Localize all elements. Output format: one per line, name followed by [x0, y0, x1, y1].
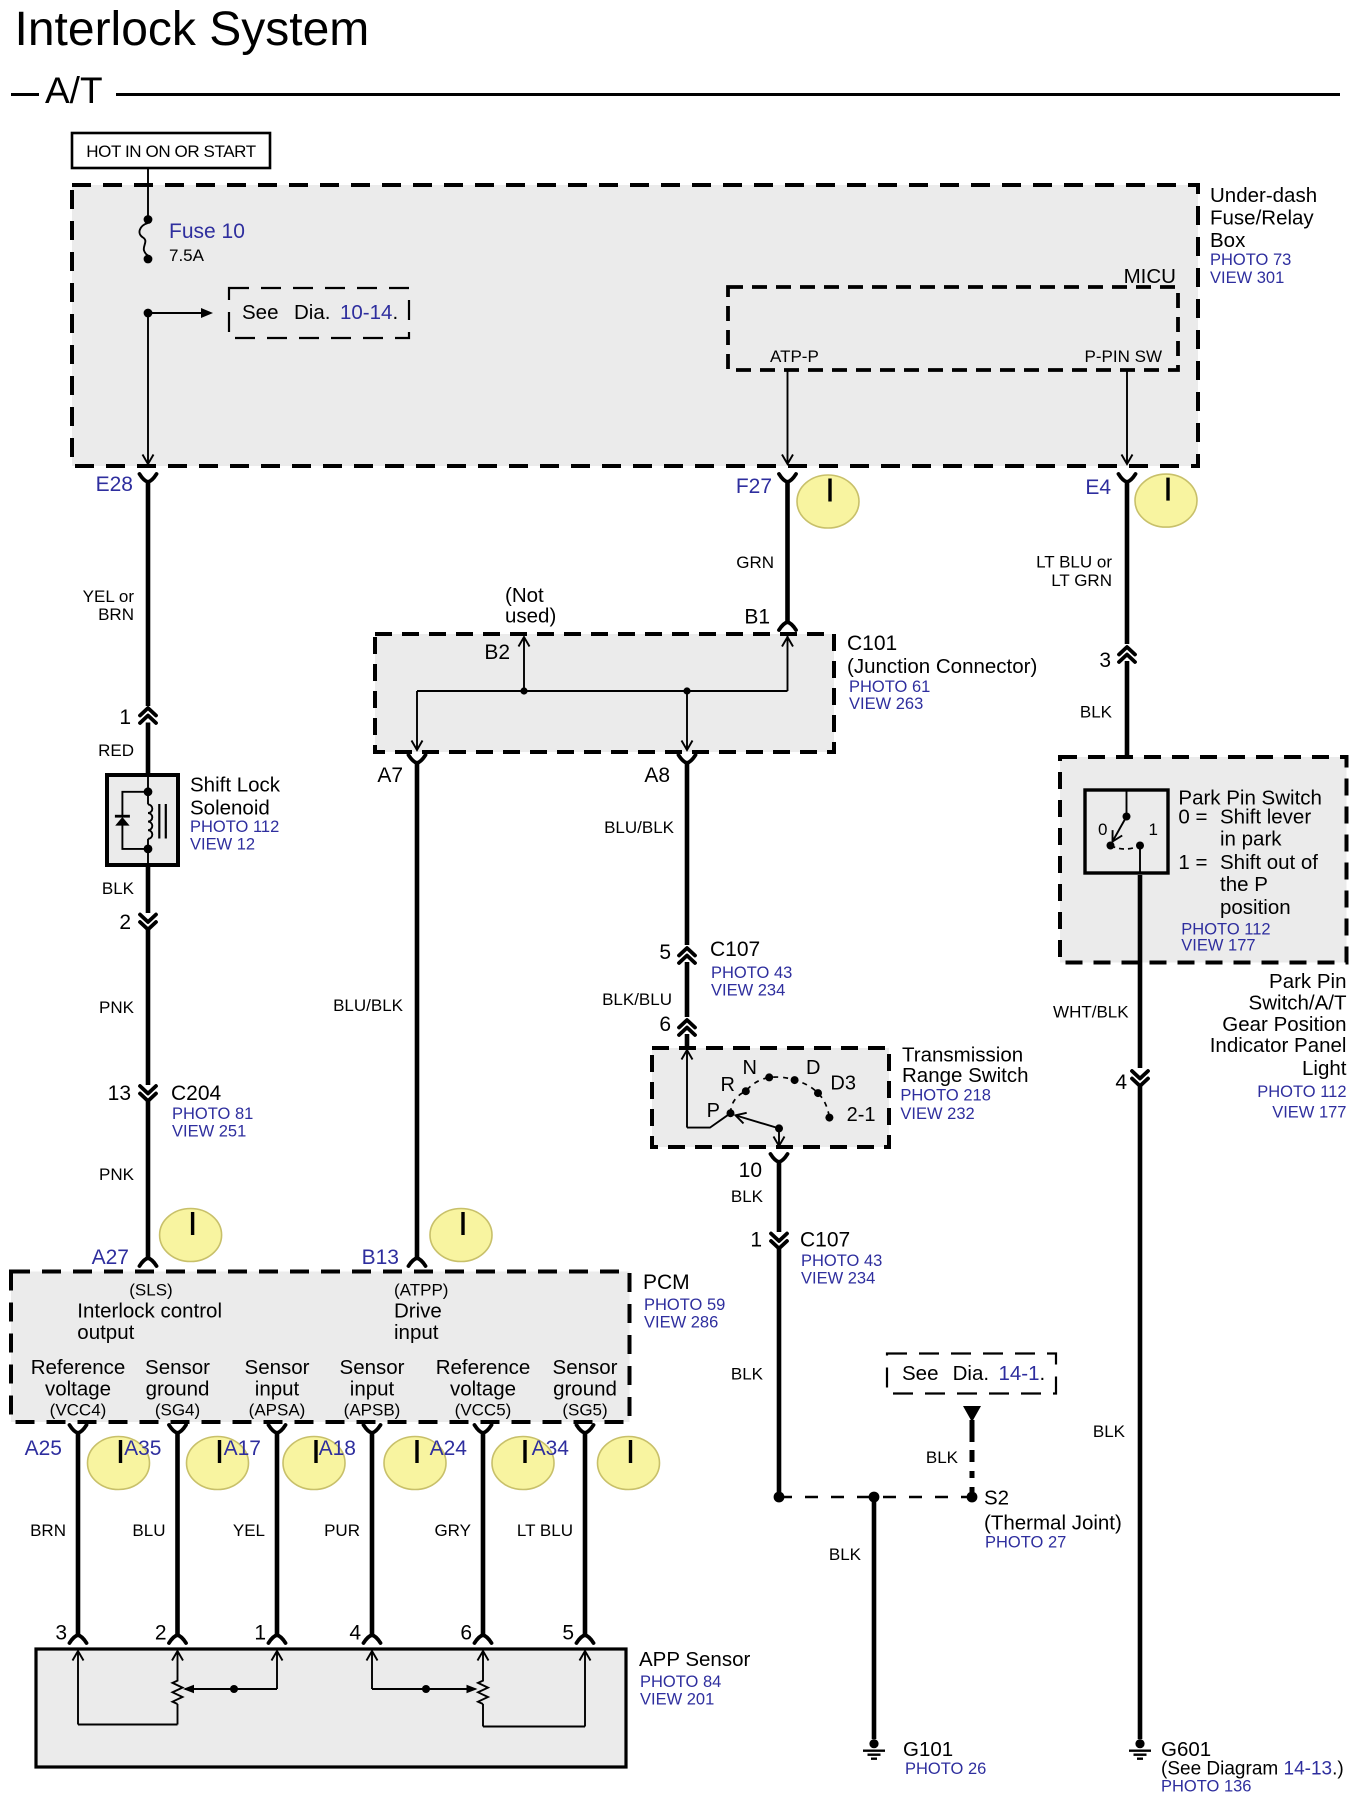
svg-text:MICU: MICU	[1124, 265, 1176, 288]
svg-text:input: input	[350, 1378, 395, 1401]
svg-text:(Thermal Joint): (Thermal Joint)	[984, 1512, 1122, 1535]
svg-text:1 =: 1 =	[1178, 851, 1207, 874]
svg-text:BRN: BRN	[30, 1521, 66, 1540]
svg-text:(Junction Connector): (Junction Connector)	[847, 655, 1037, 678]
wire connector 2 to C204 (PNK)	[99, 930, 148, 1086]
svg-text:4: 4	[349, 1622, 361, 1645]
ground G101	[863, 1738, 986, 1778]
connector pin 5 APP sensor	[577, 1635, 594, 1643]
fuse F10 (Fuse 10, 7.5A)	[139, 215, 244, 265]
svg-text:the P: the P	[1220, 873, 1268, 896]
svg-text:B2: B2	[484, 641, 510, 664]
park pin switch / AT gear position indicator panel light label	[1210, 970, 1347, 1121]
svg-text:2: 2	[155, 1622, 167, 1645]
svg-text:A24: A24	[430, 1437, 468, 1460]
connector 13 C204	[108, 1082, 254, 1141]
connector 2	[119, 911, 156, 934]
svg-text:Switch/A/T: Switch/A/T	[1249, 992, 1347, 1015]
svg-text:PHOTO 218: PHOTO 218	[900, 1087, 990, 1105]
svg-text:13: 13	[108, 1082, 131, 1105]
see dia 10-14 reference box	[229, 288, 409, 338]
svg-text:1: 1	[254, 1622, 266, 1645]
svg-text:6: 6	[659, 1013, 671, 1036]
svg-text:C101: C101	[847, 632, 897, 655]
svg-text:(VCC4): (VCC4)	[50, 1400, 107, 1419]
svg-text:Shift out of: Shift out of	[1220, 851, 1318, 874]
wire E4 to connector 3 (LT BLU or LT GRN)	[1036, 482, 1127, 644]
svg-text:voltage: voltage	[45, 1378, 111, 1401]
wire park pin switch to connector 4 (WHT/BLK)	[1053, 875, 1140, 1068]
wire S2 to G101 (BLK)	[829, 1497, 874, 1739]
svg-text:VIEW 234: VIEW 234	[801, 1270, 875, 1288]
svg-text:VIEW 263: VIEW 263	[849, 695, 923, 713]
indicator oval A24	[492, 1437, 554, 1490]
svg-text:G101: G101	[903, 1738, 953, 1761]
svg-text:D3: D3	[830, 1072, 856, 1094]
APP sensor	[36, 1649, 626, 1767]
wire 5 to 6 (BLK/BLU)	[602, 962, 687, 1017]
svg-text:BLK/BLU: BLK/BLU	[602, 990, 672, 1009]
transmission range switch label	[900, 1044, 1028, 1123]
svg-text:BLK: BLK	[829, 1545, 862, 1564]
svg-text:input: input	[255, 1378, 300, 1401]
svg-text:A/T: A/T	[45, 70, 103, 111]
svg-text:C107: C107	[800, 1229, 850, 1252]
svg-text:5: 5	[659, 941, 671, 964]
PCM label	[643, 1271, 725, 1332]
svg-text:A8: A8	[644, 764, 670, 787]
park pin switch box	[1060, 757, 1347, 963]
svg-text:4: 4	[1115, 1071, 1127, 1094]
svg-text:A7: A7	[377, 764, 403, 787]
svg-text:3: 3	[55, 1622, 67, 1645]
svg-text:Box: Box	[1210, 229, 1246, 252]
svg-text:output: output	[77, 1321, 134, 1344]
svg-text:VIEW 201: VIEW 201	[640, 1691, 714, 1709]
svg-text:VIEW 286: VIEW 286	[644, 1314, 718, 1332]
connector B13	[362, 1246, 426, 1269]
svg-text:Dia.: Dia.	[953, 1362, 989, 1385]
svg-text:(SG4): (SG4)	[155, 1400, 200, 1419]
indicator oval A35	[187, 1437, 249, 1490]
svg-text:(VCC5): (VCC5)	[455, 1400, 512, 1419]
svg-text:PHOTO 27: PHOTO 27	[985, 1534, 1066, 1552]
svg-text:Sensor: Sensor	[553, 1356, 618, 1379]
svg-text:(SLS): (SLS)	[129, 1280, 172, 1299]
svg-text:PHOTO 43: PHOTO 43	[801, 1252, 882, 1270]
svg-text:Dia.: Dia.	[294, 301, 330, 324]
svg-text:2-1: 2-1	[847, 1104, 876, 1126]
wire F27 to B1 (GRN)	[736, 482, 787, 622]
svg-text:E4: E4	[1085, 476, 1111, 499]
svg-text:P: P	[707, 1100, 720, 1122]
svg-text:Drive: Drive	[394, 1299, 442, 1322]
svg-text:VIEW 12: VIEW 12	[190, 836, 255, 854]
MICU pin ATP-P wire to F27	[770, 347, 819, 464]
label (Not used)	[505, 584, 556, 628]
wire A25 to APP sensor pin 3 (BRN)	[30, 1433, 78, 1645]
dashed wire from See Dia 14-1 to S2	[926, 1406, 981, 1494]
svg-text:Interlock control: Interlock control	[77, 1299, 222, 1322]
svg-text:Fuse/Relay: Fuse/Relay	[1210, 207, 1314, 230]
svg-text:Gear Position: Gear Position	[1222, 1013, 1346, 1036]
wire A35 to APP sensor pin 2 (BLU)	[132, 1433, 177, 1645]
connector A27	[92, 1246, 157, 1269]
wire E28 to connector 1 (YEL or BRN)	[83, 482, 148, 706]
svg-text:C204: C204	[171, 1082, 222, 1105]
park pin switch label	[1178, 787, 1322, 955]
svg-text:B1: B1	[744, 606, 770, 629]
under-dash fuse/relay box label	[1210, 184, 1317, 287]
svg-text:LT GRN: LT GRN	[1051, 571, 1112, 590]
svg-text:PHOTO 81: PHOTO 81	[172, 1105, 253, 1123]
thermal joint S2 bus	[774, 1487, 1122, 1552]
section header A/T	[11, 70, 1340, 111]
svg-text:PHOTO 136: PHOTO 136	[1161, 1778, 1251, 1796]
svg-text:PUR: PUR	[324, 1521, 360, 1540]
svg-text:A17: A17	[224, 1437, 261, 1460]
arrow wire to See Dia. 10-14	[148, 308, 213, 318]
svg-text:Shift lever: Shift lever	[1220, 805, 1311, 828]
svg-text:VIEW 301: VIEW 301	[1210, 269, 1284, 287]
svg-text:Range Switch: Range Switch	[902, 1064, 1028, 1087]
svg-text:3: 3	[1099, 649, 1111, 672]
wire solenoid to connector 2 (BLK)	[102, 865, 148, 913]
svg-text:VIEW 234: VIEW 234	[711, 982, 785, 1000]
connector A7	[377, 755, 425, 787]
node fuse output junction	[144, 309, 153, 318]
svg-text:1: 1	[119, 706, 131, 729]
connector B1	[744, 606, 796, 631]
svg-text:PHOTO 43: PHOTO 43	[711, 964, 792, 982]
svg-text:position: position	[1220, 896, 1291, 919]
svg-text:Interlock System: Interlock System	[15, 3, 370, 56]
transmission range switch SW	[652, 1048, 889, 1147]
svg-text:BLU/BLK: BLU/BLK	[333, 996, 404, 1015]
svg-text:PHOTO 73: PHOTO 73	[1210, 251, 1291, 269]
connector 3	[1099, 647, 1135, 672]
svg-text:GRN: GRN	[736, 553, 774, 572]
indicator oval A17	[283, 1437, 345, 1490]
under-dash fuse/relay box	[72, 185, 1198, 466]
svg-text:14-1.: 14-1.	[999, 1362, 1046, 1385]
shift lock solenoid label	[190, 774, 281, 854]
svg-text:PHOTO 26: PHOTO 26	[905, 1760, 986, 1778]
wire 6 into transmission range switch	[685, 1034, 690, 1046]
PCM box	[11, 1272, 630, 1423]
indicator oval A27	[160, 1209, 222, 1262]
svg-text:10-14.: 10-14.	[340, 301, 398, 324]
svg-text:Sensor: Sensor	[145, 1356, 210, 1379]
svg-text:BLU/BLK: BLU/BLK	[604, 818, 675, 837]
connector 5 C107	[659, 938, 792, 1000]
connector pin 4 APP sensor	[364, 1635, 381, 1643]
connector A25	[25, 1425, 87, 1460]
svg-text:PHOTO 59: PHOTO 59	[644, 1296, 725, 1314]
wire 4 to G601 (BLK)	[1093, 1086, 1140, 1739]
svg-text:ATP-P: ATP-P	[770, 347, 819, 366]
svg-text:PHOTO 112: PHOTO 112	[190, 818, 279, 836]
svg-text:Light: Light	[1302, 1057, 1347, 1080]
connector 10	[739, 1154, 788, 1182]
svg-text:input: input	[394, 1321, 439, 1344]
indicator oval A34	[598, 1437, 660, 1490]
svg-text:PHOTO 84: PHOTO 84	[640, 1673, 721, 1691]
svg-text:0 =: 0 =	[1178, 805, 1207, 828]
wire A8 to connector 5 (BLU/BLK)	[604, 763, 687, 945]
svg-text:(SG5): (SG5)	[562, 1400, 607, 1419]
svg-text:10: 10	[739, 1159, 762, 1182]
wire fuse junction to E28	[143, 313, 154, 464]
svg-text:BLU: BLU	[132, 1521, 165, 1540]
connector 1 (solenoid connector)	[119, 706, 156, 729]
svg-text:PNK: PNK	[99, 1165, 135, 1184]
svg-text:Fuse 10: Fuse 10	[169, 220, 245, 243]
svg-text:APP Sensor: APP Sensor	[639, 1648, 750, 1671]
svg-text:BLK: BLK	[731, 1365, 764, 1384]
svg-text:PCM: PCM	[643, 1271, 690, 1294]
svg-text:Sensor: Sensor	[245, 1356, 310, 1379]
see dia 14-1 reference box	[887, 1354, 1056, 1394]
svg-text:Park Pin: Park Pin	[1269, 970, 1346, 993]
wire C204 to A27 (PNK)	[99, 1101, 148, 1259]
svg-text:BLK: BLK	[1093, 1422, 1126, 1441]
svg-text:(APSB): (APSB)	[344, 1400, 401, 1419]
svg-text:VIEW 251: VIEW 251	[172, 1123, 246, 1141]
connector A17	[224, 1425, 286, 1460]
svg-text:D: D	[806, 1057, 820, 1079]
connector 1 C107	[750, 1229, 882, 1288]
svg-text:in park: in park	[1220, 827, 1282, 850]
svg-text:used): used)	[505, 605, 556, 628]
svg-text:ground: ground	[146, 1378, 210, 1401]
svg-text:N: N	[743, 1057, 757, 1079]
svg-text:See: See	[902, 1362, 938, 1385]
MICU pin P-PIN SW wire to E4	[1085, 347, 1162, 464]
svg-text:GRY: GRY	[434, 1521, 471, 1540]
svg-text:YEL: YEL	[233, 1521, 265, 1540]
APP sensor label	[639, 1648, 750, 1709]
svg-text:C107: C107	[710, 938, 760, 961]
wire HOT box to fuse	[147, 168, 149, 220]
svg-text:BLK: BLK	[1080, 703, 1113, 722]
junction connector C101	[375, 634, 834, 752]
connector A35	[124, 1425, 186, 1460]
svg-text:LT BLU: LT BLU	[517, 1521, 573, 1540]
connector pin 6 APP sensor	[475, 1635, 492, 1643]
wire 1 to S2 (BLK)	[731, 1249, 779, 1498]
svg-text:BLK: BLK	[102, 879, 135, 898]
connector E28	[96, 473, 157, 496]
svg-text:PHOTO 61: PHOTO 61	[849, 678, 930, 696]
svg-text:ground: ground	[553, 1378, 617, 1401]
svg-text:RED: RED	[98, 741, 134, 760]
indicator oval E4	[1135, 474, 1197, 527]
indicator oval F27	[797, 475, 859, 528]
ground G601	[1129, 1738, 1344, 1796]
svg-text:Sensor: Sensor	[340, 1356, 405, 1379]
svg-text:1: 1	[750, 1229, 762, 1252]
svg-text:Solenoid: Solenoid	[190, 797, 270, 820]
svg-text:BLK: BLK	[731, 1187, 764, 1206]
wire 10 to C107 (BLK)	[731, 1162, 779, 1232]
connector A34	[532, 1425, 594, 1460]
connector A18	[319, 1425, 381, 1460]
svg-text:BLK: BLK	[926, 1448, 959, 1467]
wire A34 to APP sensor pin 5 (LT BLU)	[517, 1433, 585, 1645]
svg-text:BRN: BRN	[98, 605, 134, 624]
svg-text:VIEW 177: VIEW 177	[1272, 1103, 1346, 1121]
svg-text:PHOTO 112: PHOTO 112	[1257, 1083, 1346, 1101]
label HOT IN ON OR START	[72, 133, 270, 168]
connector pin 2 APP sensor	[169, 1635, 186, 1643]
svg-text:LT BLU or: LT BLU or	[1036, 553, 1112, 572]
indicator oval A25	[88, 1437, 150, 1490]
wire A18 to APP sensor pin 4 (PUR)	[324, 1433, 372, 1645]
svg-text:2: 2	[119, 911, 131, 934]
svg-text:Reference: Reference	[436, 1356, 531, 1379]
svg-text:VIEW 232: VIEW 232	[900, 1105, 974, 1123]
MICU box	[728, 265, 1178, 370]
svg-text:(ATPP): (ATPP)	[394, 1280, 448, 1299]
svg-text:WHT/BLK: WHT/BLK	[1053, 1003, 1129, 1022]
svg-text:0: 0	[1098, 820, 1107, 839]
svg-text:A34: A34	[532, 1437, 570, 1460]
svg-text:Reference: Reference	[31, 1356, 126, 1379]
svg-text:S2: S2	[984, 1487, 1009, 1510]
indicator oval A18	[384, 1437, 446, 1490]
connector A8	[644, 755, 695, 787]
svg-text:YEL or: YEL or	[83, 587, 135, 606]
svg-text:PNK: PNK	[99, 998, 135, 1017]
wire A17 to APP sensor pin 1 (YEL)	[233, 1433, 277, 1645]
svg-text:A18: A18	[319, 1437, 356, 1460]
svg-text:7.5A: 7.5A	[169, 246, 205, 265]
svg-text:(See Diagram 14-13.): (See Diagram 14-13.)	[1161, 1759, 1344, 1780]
connector pin 3 APP sensor	[70, 1635, 87, 1643]
wire A7 to B13 (BLU/BLK)	[333, 763, 417, 1259]
connector F27	[736, 474, 796, 498]
svg-text:VIEW 177: VIEW 177	[1181, 936, 1255, 954]
wire A24 to APP sensor pin 6 (GRY)	[434, 1433, 483, 1645]
C101 label	[847, 632, 1037, 713]
svg-text:A35: A35	[124, 1437, 161, 1460]
wire 3 to park pin switch (BLK)	[1080, 661, 1127, 790]
connector A24	[430, 1425, 492, 1460]
svg-text:E28: E28	[96, 473, 133, 496]
svg-text:F27: F27	[736, 475, 772, 498]
connector E4	[1085, 474, 1135, 499]
wire connector 1 to solenoid (RED)	[98, 723, 148, 776]
svg-text:A27: A27	[92, 1246, 129, 1269]
svg-text:R: R	[721, 1074, 735, 1096]
svg-text:A25: A25	[25, 1437, 62, 1460]
svg-text:(APSA): (APSA)	[249, 1400, 306, 1419]
svg-text:5: 5	[562, 1622, 574, 1645]
svg-text:Indicator Panel: Indicator Panel	[1210, 1034, 1347, 1057]
svg-text:voltage: voltage	[450, 1378, 516, 1401]
connector pin 1 APP sensor	[269, 1635, 286, 1643]
connector 6	[659, 1013, 695, 1036]
indicator oval B13	[430, 1209, 492, 1262]
svg-text:Under-dash: Under-dash	[1210, 184, 1317, 207]
svg-text:B13: B13	[362, 1246, 399, 1269]
shift lock solenoid	[107, 775, 178, 865]
svg-text:HOT IN ON OR START: HOT IN ON OR START	[86, 142, 255, 161]
svg-text:Shift Lock: Shift Lock	[190, 774, 281, 797]
connector 4	[1115, 1071, 1148, 1094]
svg-text:1: 1	[1149, 820, 1158, 839]
svg-text:6: 6	[460, 1622, 472, 1645]
svg-text:See: See	[242, 301, 278, 324]
svg-text:P-PIN SW: P-PIN SW	[1085, 347, 1162, 366]
